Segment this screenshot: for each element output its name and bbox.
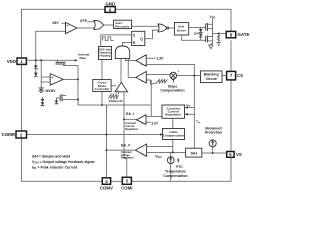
wire NMOS source xyxy=(211,41,213,45)
node junction VDD-OTP sense xyxy=(35,59,37,61)
wire GMC to PWM comparator xyxy=(111,85,116,87)
svg-text:COMI: COMI xyxy=(121,185,132,190)
svg-text:S/H: S/H xyxy=(191,151,198,155)
transistor Q1 PMOS driver xyxy=(206,23,213,31)
svg-text:+: + xyxy=(141,62,143,66)
svg-text:PTC: PTC xyxy=(176,165,183,169)
wire sample hold to EA_V lower input xyxy=(147,151,186,153)
op-amp PWM comparator xyxy=(115,82,128,91)
wire VDD rail internal bias xyxy=(26,59,75,61)
node junction brownout xyxy=(212,152,214,154)
wire Soft Driver to NMOS gate xyxy=(182,35,206,40)
wire COMR to Cable Compensation xyxy=(27,134,163,136)
svg-text:Blanking: Blanking xyxy=(204,73,219,77)
wire Blanking Circuit to CS pin xyxy=(222,75,227,77)
wire summing node to Blanking Circuit xyxy=(177,75,201,77)
wire UVLO sense vertical xyxy=(40,60,42,88)
Blanking Circuit block xyxy=(201,71,223,83)
wire EA_V output to COMV xyxy=(106,149,135,151)
flip-flop SR latch U1 xyxy=(132,31,145,45)
svg-text:Protection: Protection xyxy=(205,131,222,135)
zener 10V gate clamp xyxy=(194,28,203,41)
svg-text:Regulation: Regulation xyxy=(125,128,138,131)
wire current comparator to summing node xyxy=(146,74,170,76)
transistor Q4 green mode NMOS xyxy=(55,94,78,104)
svg-text:OTP: OTP xyxy=(80,19,88,23)
Constant Current Regulation block xyxy=(162,105,185,118)
svg-text:VS: VS xyxy=(236,152,242,157)
svg-text:+: + xyxy=(177,69,179,73)
svg-text:Regulation: Regulation xyxy=(121,157,134,160)
svg-text:1.3V: 1.3V xyxy=(156,57,164,61)
node junction EAV-COMV xyxy=(105,149,107,151)
wire Auto Recovery to NOR gate xyxy=(132,25,159,27)
node junction GMC-bus xyxy=(101,104,103,106)
wire gate node xyxy=(212,24,214,41)
wire EA_I output to COMI xyxy=(124,118,137,120)
node PTC arrow label xyxy=(177,160,179,163)
Green Mode Controller block xyxy=(93,80,111,92)
svg-text:COMR: COMR xyxy=(2,132,16,137)
pin CS 7 xyxy=(227,71,244,80)
node junction UVLO-bias xyxy=(77,78,79,80)
sawtooth slope waveform xyxy=(150,79,167,84)
transistor Q3 bias PMOS xyxy=(56,60,79,65)
wire AND input from OCP comparator xyxy=(125,59,136,61)
node junction EAI-COMI xyxy=(123,118,125,120)
Auto Recovery block xyxy=(114,20,132,28)
svg-text:Driver: Driver xyxy=(177,28,187,32)
svg-text:+: + xyxy=(141,79,143,83)
svg-text:Sawtooth: Sawtooth xyxy=(109,99,123,103)
node junction CS-sense xyxy=(193,75,195,77)
Soft Driver block xyxy=(174,23,188,35)
wire Green Mode Controller to bus xyxy=(101,92,103,106)
pin COMR 2 xyxy=(2,131,27,138)
svg-text:VS/H: VS/H xyxy=(155,154,162,159)
pin COMV 4 xyxy=(100,178,113,191)
wire gate node to GATE pin xyxy=(213,33,227,35)
svg-text:VDD: VDD xyxy=(210,15,216,20)
battery 16V/8V reference xyxy=(39,88,57,93)
summing node slope compensation xyxy=(170,69,179,83)
current source PTC xyxy=(167,152,174,181)
wire OCP comparator CS input xyxy=(146,64,194,148)
wire bias node vertical xyxy=(77,66,79,106)
svg-text:Hopping: Hopping xyxy=(100,54,111,58)
svg-text:IPK = Peak inductor Current: IPK = Peak inductor Current xyxy=(32,166,78,171)
wire UVLO comparator minus input xyxy=(41,81,50,83)
wire 28V reference stub xyxy=(62,22,67,24)
svg-text:-: - xyxy=(142,56,143,60)
svg-text:S/H = Sample and Hold: S/H = Sample and Hold xyxy=(32,155,70,159)
svg-text:Compensation: Compensation xyxy=(163,174,187,178)
wire PWM comparator inverting input to COMI net xyxy=(123,92,125,105)
transistor Q2 NMOS driver xyxy=(206,35,213,42)
svg-text:16V/8V: 16V/8V xyxy=(45,89,56,93)
node junction COMR-COMV xyxy=(105,134,107,136)
wire OSC to Green Mode Controller xyxy=(101,60,103,80)
wire OTP to OR gate upper input xyxy=(87,21,95,23)
clock waveform symbol xyxy=(102,37,113,41)
op-amp OCP comparator 1.3V xyxy=(136,55,146,67)
wire AND gate output to latch R input xyxy=(123,43,132,47)
wire Soft Driver to PMOS gate xyxy=(189,27,206,29)
svg-text:Recovery: Recovery xyxy=(115,25,129,29)
wire OR gate to Auto Recovery xyxy=(104,24,114,26)
svg-text:GND: GND xyxy=(105,2,115,7)
pin VDD 1 xyxy=(7,58,27,64)
svg-text:10V: 10V xyxy=(194,32,200,36)
node junction VDD-UVLO xyxy=(40,59,42,61)
svg-text:-: - xyxy=(142,116,143,120)
svg-text:28V: 28V xyxy=(52,21,59,25)
wire EA_I noninverting input xyxy=(146,115,162,117)
svg-text:Circuit: Circuit xyxy=(206,77,218,81)
svg-text:VS/H = Output voltage feedba: VS/H = Output voltage feedback signal xyxy=(32,160,94,165)
wire slope ramp input xyxy=(146,80,150,84)
svg-text:Controller: Controller xyxy=(95,87,111,91)
svg-text:-: - xyxy=(143,145,144,149)
node arrow to internal bias xyxy=(75,59,78,62)
IC boundary border xyxy=(21,9,231,181)
current sink arrows UVLO xyxy=(41,97,45,106)
wire CCR to Ipk net xyxy=(187,107,194,109)
wire OSC to latch S input xyxy=(101,35,132,47)
svg-text:+: + xyxy=(51,76,53,80)
svg-text:Regulation: Regulation xyxy=(165,113,181,117)
op-amp current comparator xyxy=(136,71,147,83)
svg-text:CS: CS xyxy=(237,73,243,78)
svg-text:EA_V: EA_V xyxy=(121,144,131,148)
wire VDD to PMOS source xyxy=(207,19,212,24)
op-amp OTP comparator xyxy=(66,22,78,34)
svg-text:COMV: COMV xyxy=(100,185,113,190)
wire AND input from current comparator xyxy=(128,59,136,78)
resistor gate pulldown xyxy=(217,34,219,43)
pin COMI 3 xyxy=(121,177,132,190)
legend notes xyxy=(32,155,94,171)
pin GND 6 xyxy=(105,2,115,13)
svg-text:-: - xyxy=(52,81,53,85)
wire COMV net vertical xyxy=(105,105,107,178)
wire feedback bus xyxy=(78,104,151,106)
wire 1.3V reference xyxy=(146,57,155,59)
pin VS 5 xyxy=(227,152,242,158)
wire COMI net vertical xyxy=(124,105,127,177)
svg-text:Compensation: Compensation xyxy=(163,134,185,138)
wire NOR to Soft Driver xyxy=(169,27,175,29)
sawtooth oscillator waveform xyxy=(108,94,118,98)
svg-text:-: - xyxy=(142,73,143,77)
svg-text:+: + xyxy=(67,24,69,28)
wire CCR to Cable Compensation xyxy=(172,118,174,128)
Sample and Hold block xyxy=(186,148,202,157)
ground resistor xyxy=(216,43,220,46)
node junction gate-resistor xyxy=(218,33,220,35)
wire OTP comparator output xyxy=(77,27,95,29)
wire bus to slope-EAI vertical xyxy=(150,80,152,116)
svg-text:3.0V: 3.0V xyxy=(151,121,158,125)
svg-text:+: + xyxy=(117,88,119,92)
wire UVLO comparator plus input xyxy=(41,76,50,78)
svg-text:Bias: Bias xyxy=(80,56,87,60)
op-amp EA_V error amplifier xyxy=(135,144,146,156)
NOR gate xyxy=(158,24,169,32)
svg-text:VDD: VDD xyxy=(7,59,16,64)
svg-text:S: S xyxy=(133,34,135,38)
wire S/H to VS pin xyxy=(202,152,227,154)
wire sawtooth to PWM comparator xyxy=(118,92,120,94)
node junction NMOS-bias xyxy=(77,99,79,101)
pin GATE 8 xyxy=(226,31,249,37)
op-amp EA_I error amplifier xyxy=(137,115,147,125)
svg-text:Compensation: Compensation xyxy=(160,89,184,93)
node junction Vsh xyxy=(172,151,174,153)
ground NMOS source xyxy=(209,45,213,49)
zener VDD clamp xyxy=(34,60,38,76)
svg-text:GATE: GATE xyxy=(238,32,250,37)
wire EA_V upper input xyxy=(147,146,173,148)
svg-text:EA_I: EA_I xyxy=(126,112,134,116)
wire latch Q to NOR lower input xyxy=(145,30,159,39)
OSC with Frequency Hopping block xyxy=(98,47,112,60)
svg-text:-: - xyxy=(67,30,68,34)
svg-text:-: - xyxy=(123,88,124,92)
op-amp UVLO comparator xyxy=(50,74,63,86)
wire AND input from PWM comparator xyxy=(120,59,122,83)
wire 3.0V reference stub xyxy=(146,121,151,123)
OR gate xyxy=(94,21,104,30)
wire UVLO output xyxy=(63,78,78,80)
AND gate PWM logic xyxy=(115,46,129,59)
current source brownout xyxy=(209,140,216,153)
wire VDD sense to OTP comparator xyxy=(36,31,66,60)
Cable Compensation block xyxy=(163,129,185,140)
